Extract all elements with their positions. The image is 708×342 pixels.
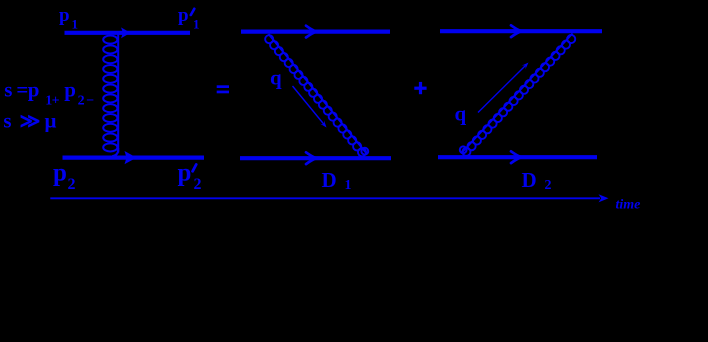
fermion line top (diagram 2)	[241, 30, 390, 34]
label p2	[53, 160, 76, 194]
label s = p_{1+} p_{2-}	[4, 77, 94, 108]
arrow on diagram 2 top line	[306, 26, 317, 38]
gluon exchange (diagram 2)	[263, 33, 368, 158]
label q (diagram 3)	[455, 102, 467, 126]
svg-text:q: q	[270, 66, 282, 90]
label p1	[59, 5, 78, 32]
time axis arrow	[50, 194, 608, 202]
svg-text:1: 1	[345, 178, 352, 193]
fermion line p1 (diagram 1 top)	[65, 31, 191, 35]
svg-text:D: D	[522, 168, 537, 192]
label p1prime	[178, 5, 200, 32]
svg-text:1: 1	[72, 17, 79, 32]
arrow on p2 line	[125, 151, 137, 164]
label D2	[522, 168, 552, 193]
svg-text:2: 2	[68, 176, 76, 193]
svg-text:1: 1	[193, 17, 200, 32]
svg-text:−: −	[86, 93, 94, 108]
svg-text:2: 2	[78, 93, 85, 108]
svg-text:p: p	[64, 77, 76, 101]
svg-text:D: D	[322, 168, 337, 192]
momentum arrow q (diagram 3)	[478, 63, 529, 113]
label q (diagram 2)	[270, 66, 282, 90]
momentum arrow q (diagram 2)	[293, 86, 327, 128]
svg-text:=: =	[16, 77, 28, 101]
plus sign	[414, 82, 426, 94]
label D1	[322, 168, 352, 193]
fermion line p2 (diagram 1 bottom)	[63, 156, 205, 160]
svg-text:p: p	[178, 5, 189, 26]
svg-text:q: q	[455, 102, 467, 126]
gluon t-channel (diagram 1)	[103, 35, 118, 157]
svg-text:p: p	[53, 160, 67, 187]
arrow on diagram 3 bottom line	[511, 151, 522, 163]
svg-text:p: p	[59, 5, 70, 26]
arrow on diagram 3 top line	[511, 25, 522, 37]
fermion line bottom (diagram 2)	[240, 156, 391, 160]
svg-text:s: s	[4, 77, 12, 101]
fermion line top (diagram 3)	[440, 29, 602, 33]
label time	[616, 198, 641, 213]
svg-text:time: time	[616, 198, 641, 213]
svg-text:2: 2	[545, 178, 552, 193]
svg-text:+: +	[52, 93, 60, 108]
arrow on p1 line	[121, 27, 131, 38]
svg-text:≫: ≫	[20, 111, 41, 133]
svg-text:μ: μ	[45, 109, 57, 133]
label s >> mu	[3, 109, 56, 133]
equals sign	[217, 85, 229, 93]
fermion line bottom (diagram 3)	[438, 155, 597, 159]
arrow on diagram 2 bottom line	[306, 152, 317, 164]
svg-text:p: p	[28, 77, 40, 101]
gluon exchange (diagram 3)	[460, 33, 577, 157]
label p2prime	[178, 160, 202, 194]
svg-text:s: s	[3, 109, 11, 133]
svg-text:p: p	[178, 160, 192, 187]
svg-text:2: 2	[194, 176, 202, 193]
